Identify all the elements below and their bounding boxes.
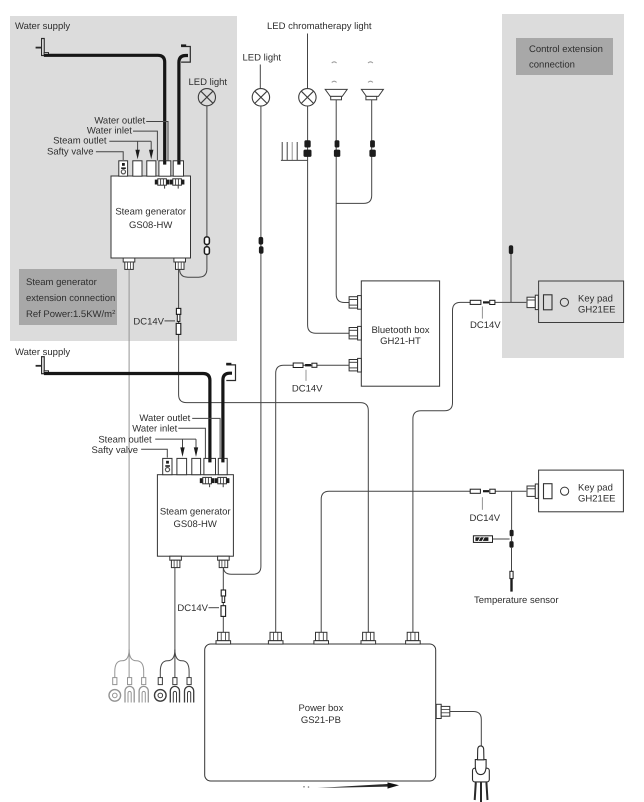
bluetooth box GH21-HT — [361, 281, 439, 386]
pen stroke arrow annotation under power box — [303, 782, 399, 788]
generator 2 bottom connector right — [218, 556, 230, 567]
connector pair on spot lamp 1 wire — [334, 140, 340, 157]
svg-text:Steam outlet: Steam outlet — [98, 434, 152, 445]
generator 1 bottom connector right — [174, 258, 186, 269]
svg-text:LED light: LED light — [189, 77, 228, 88]
pointer line: safty valve to port 1 (gen 2) — [141, 449, 167, 457]
svg-text:Steam generator: Steam generator — [115, 207, 186, 218]
steam generator 1 box — [111, 176, 191, 258]
svg-text:GS08-HW: GS08-HW — [174, 519, 217, 530]
steam generator 2 box — [157, 475, 233, 557]
generator 2 port 5 — [218, 458, 227, 474]
svg-text:GH21EE: GH21EE — [578, 305, 616, 316]
fork 2 branches — [160, 650, 189, 679]
generator 1 port: safety valve port — [119, 161, 128, 176]
keypad 1 plug connector — [527, 295, 538, 309]
svg-text:Steam generator: Steam generator — [26, 277, 97, 288]
bluetooth connector 3 — [349, 358, 361, 372]
pointer line: water inlet to port 4 — [133, 131, 157, 160]
connector pair on spot lamp 2 wire — [369, 140, 375, 157]
svg-text:Water outlet: Water outlet — [139, 413, 190, 424]
gray panel: steam generator extension area — [10, 16, 237, 341]
power box connector 1 — [216, 632, 231, 644]
pipe tip in generator 2 port 4 — [208, 458, 211, 462]
svg-text:Water supply: Water supply — [15, 21, 70, 32]
svg-text:connection: connection — [529, 59, 575, 70]
generator 1 port 3: steam outlet — [147, 161, 156, 176]
svg-text:Temperature sensor: Temperature sensor — [474, 595, 558, 606]
faucet: shower outlet fitting 2 — [226, 363, 235, 381]
faucet: shower outlet fitting 1 — [181, 44, 190, 62]
mains plug — [473, 746, 490, 802]
faucet: water supply tap 1 — [36, 39, 49, 56]
safety valve glyph 2 — [165, 461, 170, 472]
DC14V inline connector (gen 1) — [176, 308, 181, 334]
generator 1 port 5: water outlet — [173, 161, 183, 176]
pipe tip in generator 1 port 5 — [177, 161, 180, 165]
temperature sensor drop wire — [509, 491, 513, 591]
svg-text:Key pad: Key pad — [578, 294, 613, 305]
fork 1 spade terminal A — [125, 678, 134, 703]
chromatherapy spot lamp 2 — [361, 62, 383, 100]
svg-text:GS21-PB: GS21-PB — [301, 715, 341, 726]
DC14V inline connector (gen 2) — [221, 590, 226, 616]
svg-text:Safty valve: Safty valve — [47, 147, 93, 158]
svg-text:Ref Power:1.5KW/m2: Ref Power:1.5KW/m2 — [26, 309, 116, 320]
svg-text:GS08-HW: GS08-HW — [129, 220, 172, 231]
pointer line: steam outlet to ports 2 and 3 with arrows — [109, 141, 153, 159]
multi-wire comb symbol — [281, 142, 308, 160]
wire: spot lamp 2 joining spot lamp 1 wire — [336, 100, 372, 204]
pipe tip in generator 2 port 5 — [221, 458, 224, 462]
power box connector 4 — [361, 632, 376, 644]
power box side connector — [436, 704, 450, 718]
pipe: water outlet pipe from generator 2 — [223, 373, 232, 461]
svg-text:DC14V: DC14V — [292, 383, 323, 394]
union fitting B inside generator 1 — [170, 179, 185, 189]
union fitting B inside generator 2 — [215, 477, 230, 487]
temperature sensor probe — [473, 536, 509, 543]
label: DC14V (gen 1) — [133, 316, 175, 327]
svg-text:Water inlet: Water inlet — [132, 424, 177, 435]
wire: keypad 2 to power box connector 3 — [321, 491, 526, 632]
keypad 2 box GH21EE — [539, 470, 624, 512]
wire: mains cord from power box to plug — [450, 712, 482, 748]
svg-text:Power box: Power box — [298, 703, 343, 714]
bluetooth connector 1 — [349, 296, 361, 310]
label box: control extension connection — [516, 38, 613, 75]
wire: bluetooth DC14V to power box connector 2 — [276, 365, 350, 632]
generator 2 port 1: safety valve port — [163, 458, 172, 474]
wire: keypad 1 to power box connector 5 — [413, 302, 526, 632]
pointer line: water inlet to port 4 (gen 2) — [178, 428, 205, 458]
fork 1 ring terminal — [109, 678, 121, 702]
svg-text:Control extension: Control extension — [529, 44, 603, 55]
LED lamp symbol 2 (circle-X) — [252, 89, 269, 106]
wire: generator 2 left connector down to fork 2 — [174, 568, 176, 656]
gray panel: control extension area — [502, 14, 624, 358]
connector pair on LED 2 wire — [259, 237, 264, 254]
faucet: water supply tap 2 — [36, 357, 49, 374]
keypad 2 plug connector — [527, 484, 538, 498]
bluetooth connector 2 — [349, 326, 361, 340]
svg-text:DC14V: DC14V — [133, 316, 164, 327]
DC14V inline connector (bluetooth) — [293, 363, 317, 368]
wire: chromatherapy label stem — [307, 34, 309, 89]
wire: LED lamp 2 down to generator 2 right connector — [223, 106, 261, 574]
fork 2 ring terminal — [155, 678, 167, 702]
connector pair on LED 1 wire — [204, 237, 209, 255]
generator 2 bottom connector left — [170, 556, 182, 567]
fork 2 spade terminal B — [185, 678, 194, 703]
wire: generator 1 right connector DC14V feed to power box connector 4 — [179, 270, 369, 633]
label: DC14V (keypad 1) — [470, 306, 501, 331]
label: DC14V (bluetooth) — [292, 370, 323, 395]
pipe: water outlet pipe from generator 1 — [179, 56, 188, 164]
generator 1 port 4: water inlet — [159, 161, 171, 176]
union fitting A inside generator 1 — [155, 179, 170, 189]
union fitting A inside generator 2 — [200, 477, 215, 487]
pointer line: steam outlet to ports 2 and 3 with arrows (gen 2) — [155, 439, 198, 457]
svg-text:LED chromatherapy light: LED chromatherapy light — [267, 21, 372, 32]
fork 1 branches — [115, 650, 144, 679]
power box connector 3 — [314, 632, 329, 644]
power box GS21-PB — [205, 644, 436, 781]
label: DC14V (gen 2) — [177, 603, 219, 614]
svg-text:DC14V: DC14V — [470, 513, 501, 524]
wire: LED light 2 label stem — [259, 65, 261, 89]
fork 1 spade terminal B — [139, 678, 148, 703]
pipe: water inlet pipe to generator 1 — [44, 55, 165, 163]
pipe tip in generator 1 port 4 — [163, 161, 166, 165]
antenna stub on keypad 1 wire — [509, 245, 513, 302]
svg-text:LED light: LED light — [243, 52, 282, 63]
power box connector 2 — [268, 632, 283, 644]
label: DC14V (keypad 2) — [470, 497, 501, 524]
label box: steam generator extension connection — [19, 269, 117, 325]
generator 1 port 2: steam outlet — [133, 161, 142, 176]
wire: chromatherapy lamp to bluetooth box connector 2 — [308, 106, 350, 333]
wire: generator 1 left connector down to fork 1 — [128, 270, 130, 657]
safety valve glyph — [121, 163, 126, 174]
svg-text:extension connection: extension connection — [26, 293, 115, 304]
pipe: water inlet pipe to generator 2 — [44, 374, 210, 462]
wire: spot lamp 1 to bluetooth box connector 1 — [336, 100, 349, 303]
power box connector 5 — [406, 632, 421, 644]
chromatherapy spot lamp 1 — [325, 62, 347, 100]
wire: generator 2 right connector down to power box connector 1 — [222, 568, 224, 633]
generator 2 port 4 — [204, 458, 216, 474]
svg-text:DC14V: DC14V — [470, 320, 501, 331]
svg-text:Safty valve: Safty valve — [92, 445, 138, 456]
svg-text:Steam generator: Steam generator — [160, 506, 231, 517]
generator 1 bottom connector left — [123, 258, 135, 269]
svg-text:GH21EE: GH21EE — [578, 493, 616, 504]
pointer line: safty valve to port 1 — [96, 152, 123, 160]
wire: LED lamp 1 to generator 1 right connector — [180, 106, 207, 277]
fork 2 spade terminal A — [170, 678, 179, 703]
pointer line: water outlet to port 5 (gen 2) — [192, 418, 220, 458]
keypad 1 box GH21EE — [539, 281, 624, 323]
svg-text:DC14V: DC14V — [177, 603, 208, 614]
pointer line: water outlet to port 5 — [146, 122, 168, 161]
generator 2 port 3 — [192, 458, 201, 474]
generator 2 port 2 — [177, 458, 187, 474]
svg-text:Steam outlet: Steam outlet — [53, 136, 107, 147]
svg-text:GH21-HT: GH21-HT — [380, 336, 421, 347]
svg-text:Bluetooth box: Bluetooth box — [371, 325, 429, 336]
svg-text:Key pad: Key pad — [578, 482, 613, 493]
DC14V inline connector (keypad 1) — [470, 300, 495, 304]
LED lamp symbol 1 (circle-X) — [198, 89, 215, 106]
DC14V inline connector (keypad 2) — [470, 489, 495, 493]
connector pair on chromatherapy wire — [304, 140, 312, 157]
LED chromatherapy lamp symbol (circle-X) — [299, 89, 316, 106]
